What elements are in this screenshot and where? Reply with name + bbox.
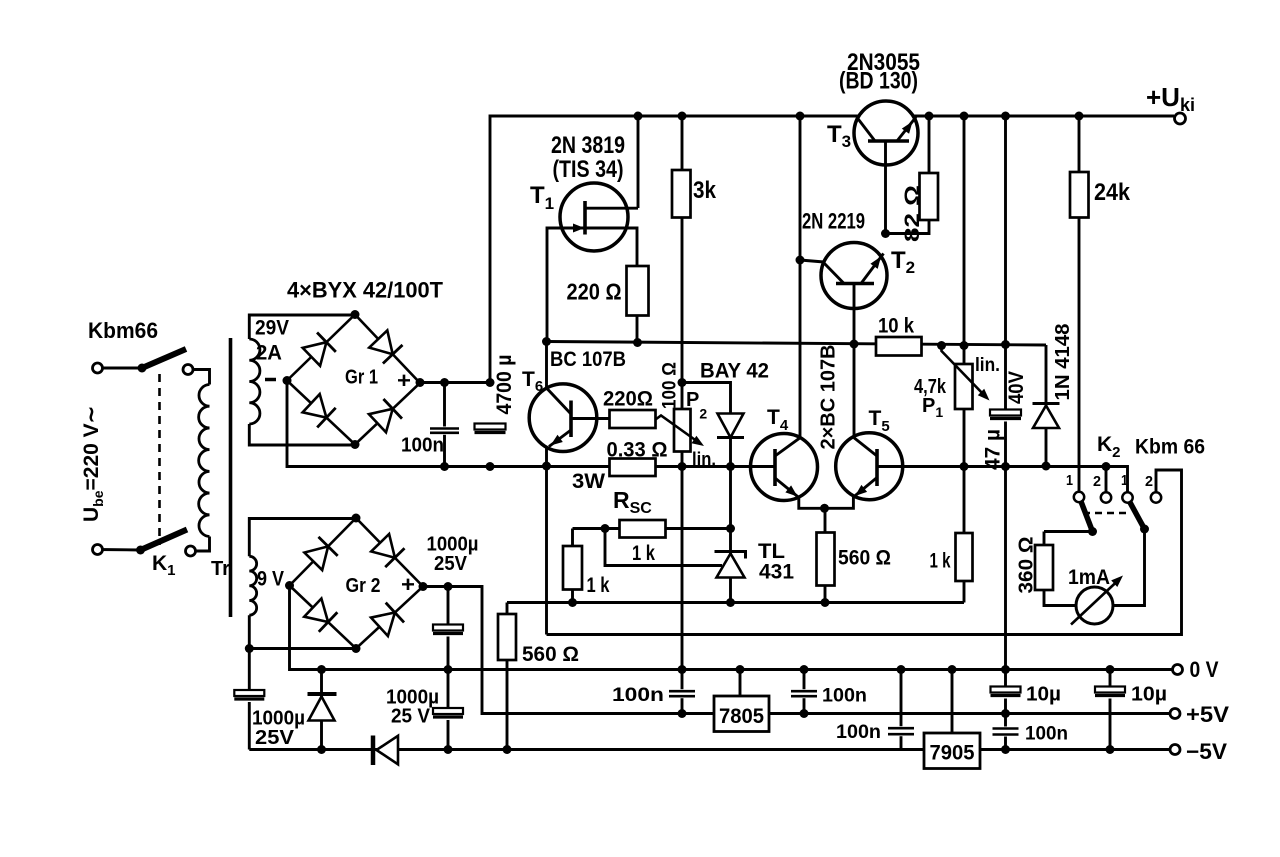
svg-text:1 k: 1 k	[930, 550, 951, 573]
svg-text:100n: 100n	[836, 722, 881, 743]
svg-text:10µ: 10µ	[1131, 684, 1167, 706]
svg-text:24k: 24k	[1094, 179, 1131, 206]
svg-text:10 k: 10 k	[878, 315, 914, 338]
svg-text:lin.: lin.	[692, 450, 716, 471]
svg-text:9 V: 9 V	[257, 568, 284, 591]
svg-text:1mA: 1mA	[1068, 566, 1110, 589]
svg-text:100n: 100n	[1025, 724, 1068, 745]
svg-text:3W: 3W	[572, 470, 605, 493]
svg-text:25V: 25V	[255, 727, 295, 749]
svg-text:Tr: Tr	[211, 558, 230, 580]
svg-text:1: 1	[1066, 472, 1073, 489]
svg-text:2A: 2A	[256, 342, 282, 365]
svg-text:Gr 1: Gr 1	[345, 367, 378, 389]
svg-text:47 µ: 47 µ	[982, 429, 1005, 470]
svg-text:0 V: 0 V	[1190, 657, 1219, 682]
svg-text:10µ: 10µ	[1026, 684, 1061, 706]
svg-text:BAY 42: BAY 42	[700, 360, 769, 383]
svg-text:2N 2219: 2N 2219	[802, 209, 865, 234]
svg-text:2: 2	[1093, 473, 1101, 490]
svg-text:25V: 25V	[434, 553, 468, 575]
svg-text:25 V: 25 V	[391, 706, 431, 728]
svg-text:560 Ω: 560 Ω	[838, 547, 891, 570]
svg-text:2×BC 107B: 2×BC 107B	[818, 345, 840, 450]
svg-text:7905: 7905	[930, 742, 975, 765]
svg-text:+: +	[401, 572, 415, 597]
svg-text:BC 107B: BC 107B	[550, 348, 626, 371]
svg-text:2N 3819: 2N 3819	[551, 132, 625, 159]
svg-text:2: 2	[1145, 473, 1153, 490]
svg-text:220Ω: 220Ω	[603, 388, 653, 411]
svg-text:360 Ω: 360 Ω	[1016, 537, 1038, 594]
svg-text:Kbm 66: Kbm 66	[1135, 436, 1205, 459]
svg-text:100 Ω: 100 Ω	[660, 362, 681, 409]
svg-text:−5V: −5V	[1186, 739, 1227, 764]
svg-text:lin.: lin.	[975, 355, 1000, 376]
svg-text:1 k: 1 k	[587, 574, 610, 597]
svg-text:220 Ω: 220 Ω	[567, 279, 622, 305]
svg-text:431: 431	[759, 561, 794, 584]
svg-text:100n: 100n	[401, 435, 444, 457]
svg-text:100n: 100n	[612, 685, 664, 706]
svg-text:0.33 Ω: 0.33 Ω	[607, 439, 668, 462]
svg-text:1N 4148: 1N 4148	[1052, 324, 1074, 401]
svg-text:4×BYX 42/100T: 4×BYX 42/100T	[287, 278, 444, 303]
svg-text:Kbm66: Kbm66	[88, 318, 158, 343]
svg-text:+5V: +5V	[1186, 702, 1229, 727]
svg-text:3k: 3k	[693, 177, 717, 204]
svg-text:100n: 100n	[822, 686, 867, 707]
svg-text:560 Ω: 560 Ω	[522, 643, 579, 666]
svg-text:1: 1	[1121, 472, 1128, 489]
svg-text:7805: 7805	[719, 705, 764, 728]
svg-text:+: +	[397, 368, 411, 393]
svg-text:(BD 130): (BD 130)	[839, 68, 918, 95]
svg-text:4700 µ: 4700 µ	[493, 355, 516, 415]
svg-text:40V: 40V	[1005, 371, 1028, 404]
svg-text:1 k: 1 k	[632, 542, 655, 565]
svg-text:(TIS 34): (TIS 34)	[553, 156, 624, 183]
svg-text:82 Ω: 82 Ω	[901, 185, 924, 242]
svg-text:Gr 2: Gr 2	[346, 575, 381, 597]
svg-text:29V: 29V	[255, 317, 289, 340]
